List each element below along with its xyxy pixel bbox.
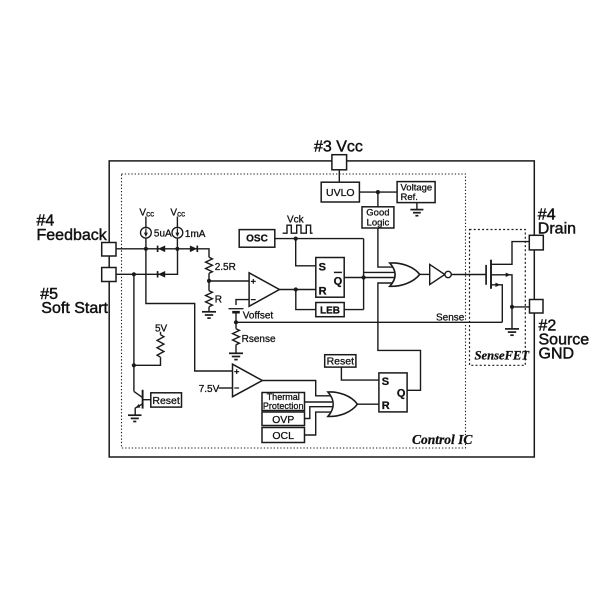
resistor 5V xyxy=(157,335,164,358)
pin #2 Source GND xyxy=(530,300,544,314)
svg-text:S: S xyxy=(319,261,326,273)
wire 5V resistor branch xyxy=(134,332,161,366)
svg-text:OCL: OCL xyxy=(272,430,294,442)
svg-text:7.5V: 7.5V xyxy=(199,384,220,395)
Vck clock waveform xyxy=(283,225,313,233)
ground below R xyxy=(202,312,216,318)
wire Reset2 to FF2 S input xyxy=(341,367,379,380)
wire feedback row xyxy=(116,249,209,257)
wire 7.5V to comparator2 minus input xyxy=(219,387,233,389)
svg-text:Sense: Sense xyxy=(436,313,465,324)
svg-text:5uA: 5uA xyxy=(154,229,172,240)
OR gate G1 gate-drive xyxy=(390,263,420,286)
node op-amp1 output xyxy=(294,287,298,291)
wire MOSFET drain to Drain pin xyxy=(491,242,529,265)
box OVP xyxy=(262,412,305,426)
wire LEB input tap xyxy=(296,290,316,310)
svg-text:Soft Start: Soft Start xyxy=(41,300,108,317)
svg-text:Control IC: Control IC xyxy=(412,432,473,447)
wire Qbar row to OR gate xyxy=(344,277,398,279)
resistor R xyxy=(206,291,213,307)
wire Good Logic to OR gate top input xyxy=(378,228,398,267)
wire OR1 output to inverter xyxy=(420,273,430,275)
svg-text:Reset: Reset xyxy=(152,395,180,407)
wire OR2 output to FF2 R input xyxy=(357,403,379,405)
node divider to op-amp + input xyxy=(209,280,249,282)
svg-text:R: R xyxy=(319,285,327,297)
svg-text:SenseFET: SenseFET xyxy=(475,349,531,363)
wire 1mA source stubs xyxy=(176,217,178,249)
svg-text:1mA: 1mA xyxy=(185,229,206,240)
wire OCL output xyxy=(305,412,346,435)
node 5V/soft-start xyxy=(132,363,136,367)
wire LEB output up to Qbar row xyxy=(344,309,363,311)
svg-text:Ref.: Ref. xyxy=(401,192,418,203)
OR gate G3 protection xyxy=(328,392,358,417)
wire Voltage Ref ground stub xyxy=(416,203,418,210)
svg-text:Rsense: Rsense xyxy=(242,334,276,345)
diode D3 soft-start row xyxy=(158,271,166,278)
diode D2 to divider xyxy=(190,246,197,253)
node source/GND pin xyxy=(510,305,514,309)
Control IC dotted boundary xyxy=(122,174,466,448)
svg-text:S: S xyxy=(382,376,389,388)
wire MOSFET sense tap xyxy=(491,285,502,323)
transistor M1 SenseFET MOSFET xyxy=(486,260,511,289)
pin #4 Drain xyxy=(529,235,543,250)
svg-text:Q: Q xyxy=(334,276,343,288)
wire UVLO to Voltage Ref xyxy=(359,191,397,193)
node divider tap xyxy=(207,279,211,283)
op-amp U1 PWM comparator xyxy=(249,273,279,307)
box Voltage Ref xyxy=(397,182,435,204)
wire MOSFET source to Source GND pin xyxy=(491,275,530,329)
wire OVP output xyxy=(305,407,346,419)
svg-text:2.5R: 2.5R xyxy=(215,262,236,273)
wire op-amp1 output to R input xyxy=(279,289,315,291)
svg-text:UVLO: UVLO xyxy=(326,187,355,199)
svg-text:GND: GND xyxy=(539,346,575,363)
wire Rsense bottom stub xyxy=(235,345,237,353)
svg-text:Protection: Protection xyxy=(263,401,304,411)
current source 1mA xyxy=(172,227,183,238)
resistor Rsense xyxy=(233,329,240,345)
wire OSC to S input xyxy=(296,239,316,266)
ground below Rsense xyxy=(229,353,243,359)
wire Sense line xyxy=(236,321,502,323)
svg-text:R: R xyxy=(215,295,222,306)
current source 5uA xyxy=(141,227,152,238)
wire Good Logic tap xyxy=(377,192,379,207)
wire OSC clock line xyxy=(275,239,398,310)
ground at BJT emitter xyxy=(128,415,142,421)
svg-text:#3 Vcc: #3 Vcc xyxy=(314,139,363,156)
wire Thermal Protection output xyxy=(305,401,346,403)
node UVLO/VRef/GoodLogic xyxy=(376,190,380,194)
node Qbar/LEB xyxy=(362,275,366,279)
svg-text:Vcc: Vcc xyxy=(139,208,154,219)
wire op-amp1 minus input to Voffset battery xyxy=(236,300,249,329)
box LEB leading edge blanking xyxy=(316,303,344,317)
diode D1 feedback row xyxy=(158,246,166,253)
pin #4 Feedback xyxy=(102,243,116,257)
svg-text:Reset: Reset xyxy=(327,356,355,368)
svg-text:Logic: Logic xyxy=(367,217,390,228)
resistor 2.5R xyxy=(206,257,213,273)
box Good Logic xyxy=(362,207,394,229)
transistor Q1 reset BJT xyxy=(134,390,151,415)
wire FF2 Q loop to OR gate bottom input xyxy=(378,283,421,390)
pin #3 Vcc xyxy=(332,155,347,170)
svg-text:OSC: OSC xyxy=(246,233,268,244)
svg-text:Feedback: Feedback xyxy=(37,227,108,244)
wire soft-start vertical to BJT collector xyxy=(133,274,135,391)
wire feedback to comparator2 + input xyxy=(146,249,233,371)
box OCL xyxy=(262,428,305,443)
pin #5 Soft Start xyxy=(102,268,116,282)
svg-text:Drain: Drain xyxy=(538,221,576,238)
wire inverter output to MOSFET gate xyxy=(451,274,486,276)
node soft-start xyxy=(132,272,136,276)
wire 2.5R to R divider xyxy=(208,273,210,311)
svg-text:Voffset: Voffset xyxy=(243,310,274,321)
svg-text:LEB: LEB xyxy=(320,305,340,316)
ground at SenseFET source xyxy=(505,329,519,335)
node OSC clock xyxy=(294,237,298,241)
wire 5uA source stubs xyxy=(145,217,147,249)
flip-flop U4 protection latch xyxy=(379,373,407,412)
box Reset R1 at BJT xyxy=(151,393,182,407)
box Thermal Protection xyxy=(262,392,305,411)
wire Vcc pin to UVLO xyxy=(338,170,340,182)
svg-text:Vck: Vck xyxy=(287,214,305,225)
svg-text:OVP: OVP xyxy=(272,414,294,426)
svg-text:Q: Q xyxy=(397,387,406,399)
box OSC oscillator xyxy=(239,230,275,248)
ground below Voltage Ref xyxy=(410,210,423,216)
SenseFET dotted boundary xyxy=(470,230,526,366)
node feedback/5uA xyxy=(144,247,148,251)
inverter G2 xyxy=(430,264,452,284)
box Reset R2 at FF2 xyxy=(325,355,356,368)
node sense/Voffset/Rsense xyxy=(234,320,238,324)
flip-flop U3 PWM latch xyxy=(316,258,344,298)
wire soft-start row xyxy=(116,249,178,274)
svg-text:R: R xyxy=(382,400,390,412)
node feedback/1mA xyxy=(175,247,179,251)
battery Voffset xyxy=(229,309,244,313)
svg-text:5V: 5V xyxy=(155,323,168,334)
box UVLO xyxy=(321,182,359,202)
op-amp U2 protection comparator 7.5V xyxy=(233,364,263,397)
wire comparator2 output to OR2 xyxy=(262,381,345,396)
svg-text:Vcc: Vcc xyxy=(170,208,185,219)
outer IC package boundary xyxy=(109,161,534,457)
